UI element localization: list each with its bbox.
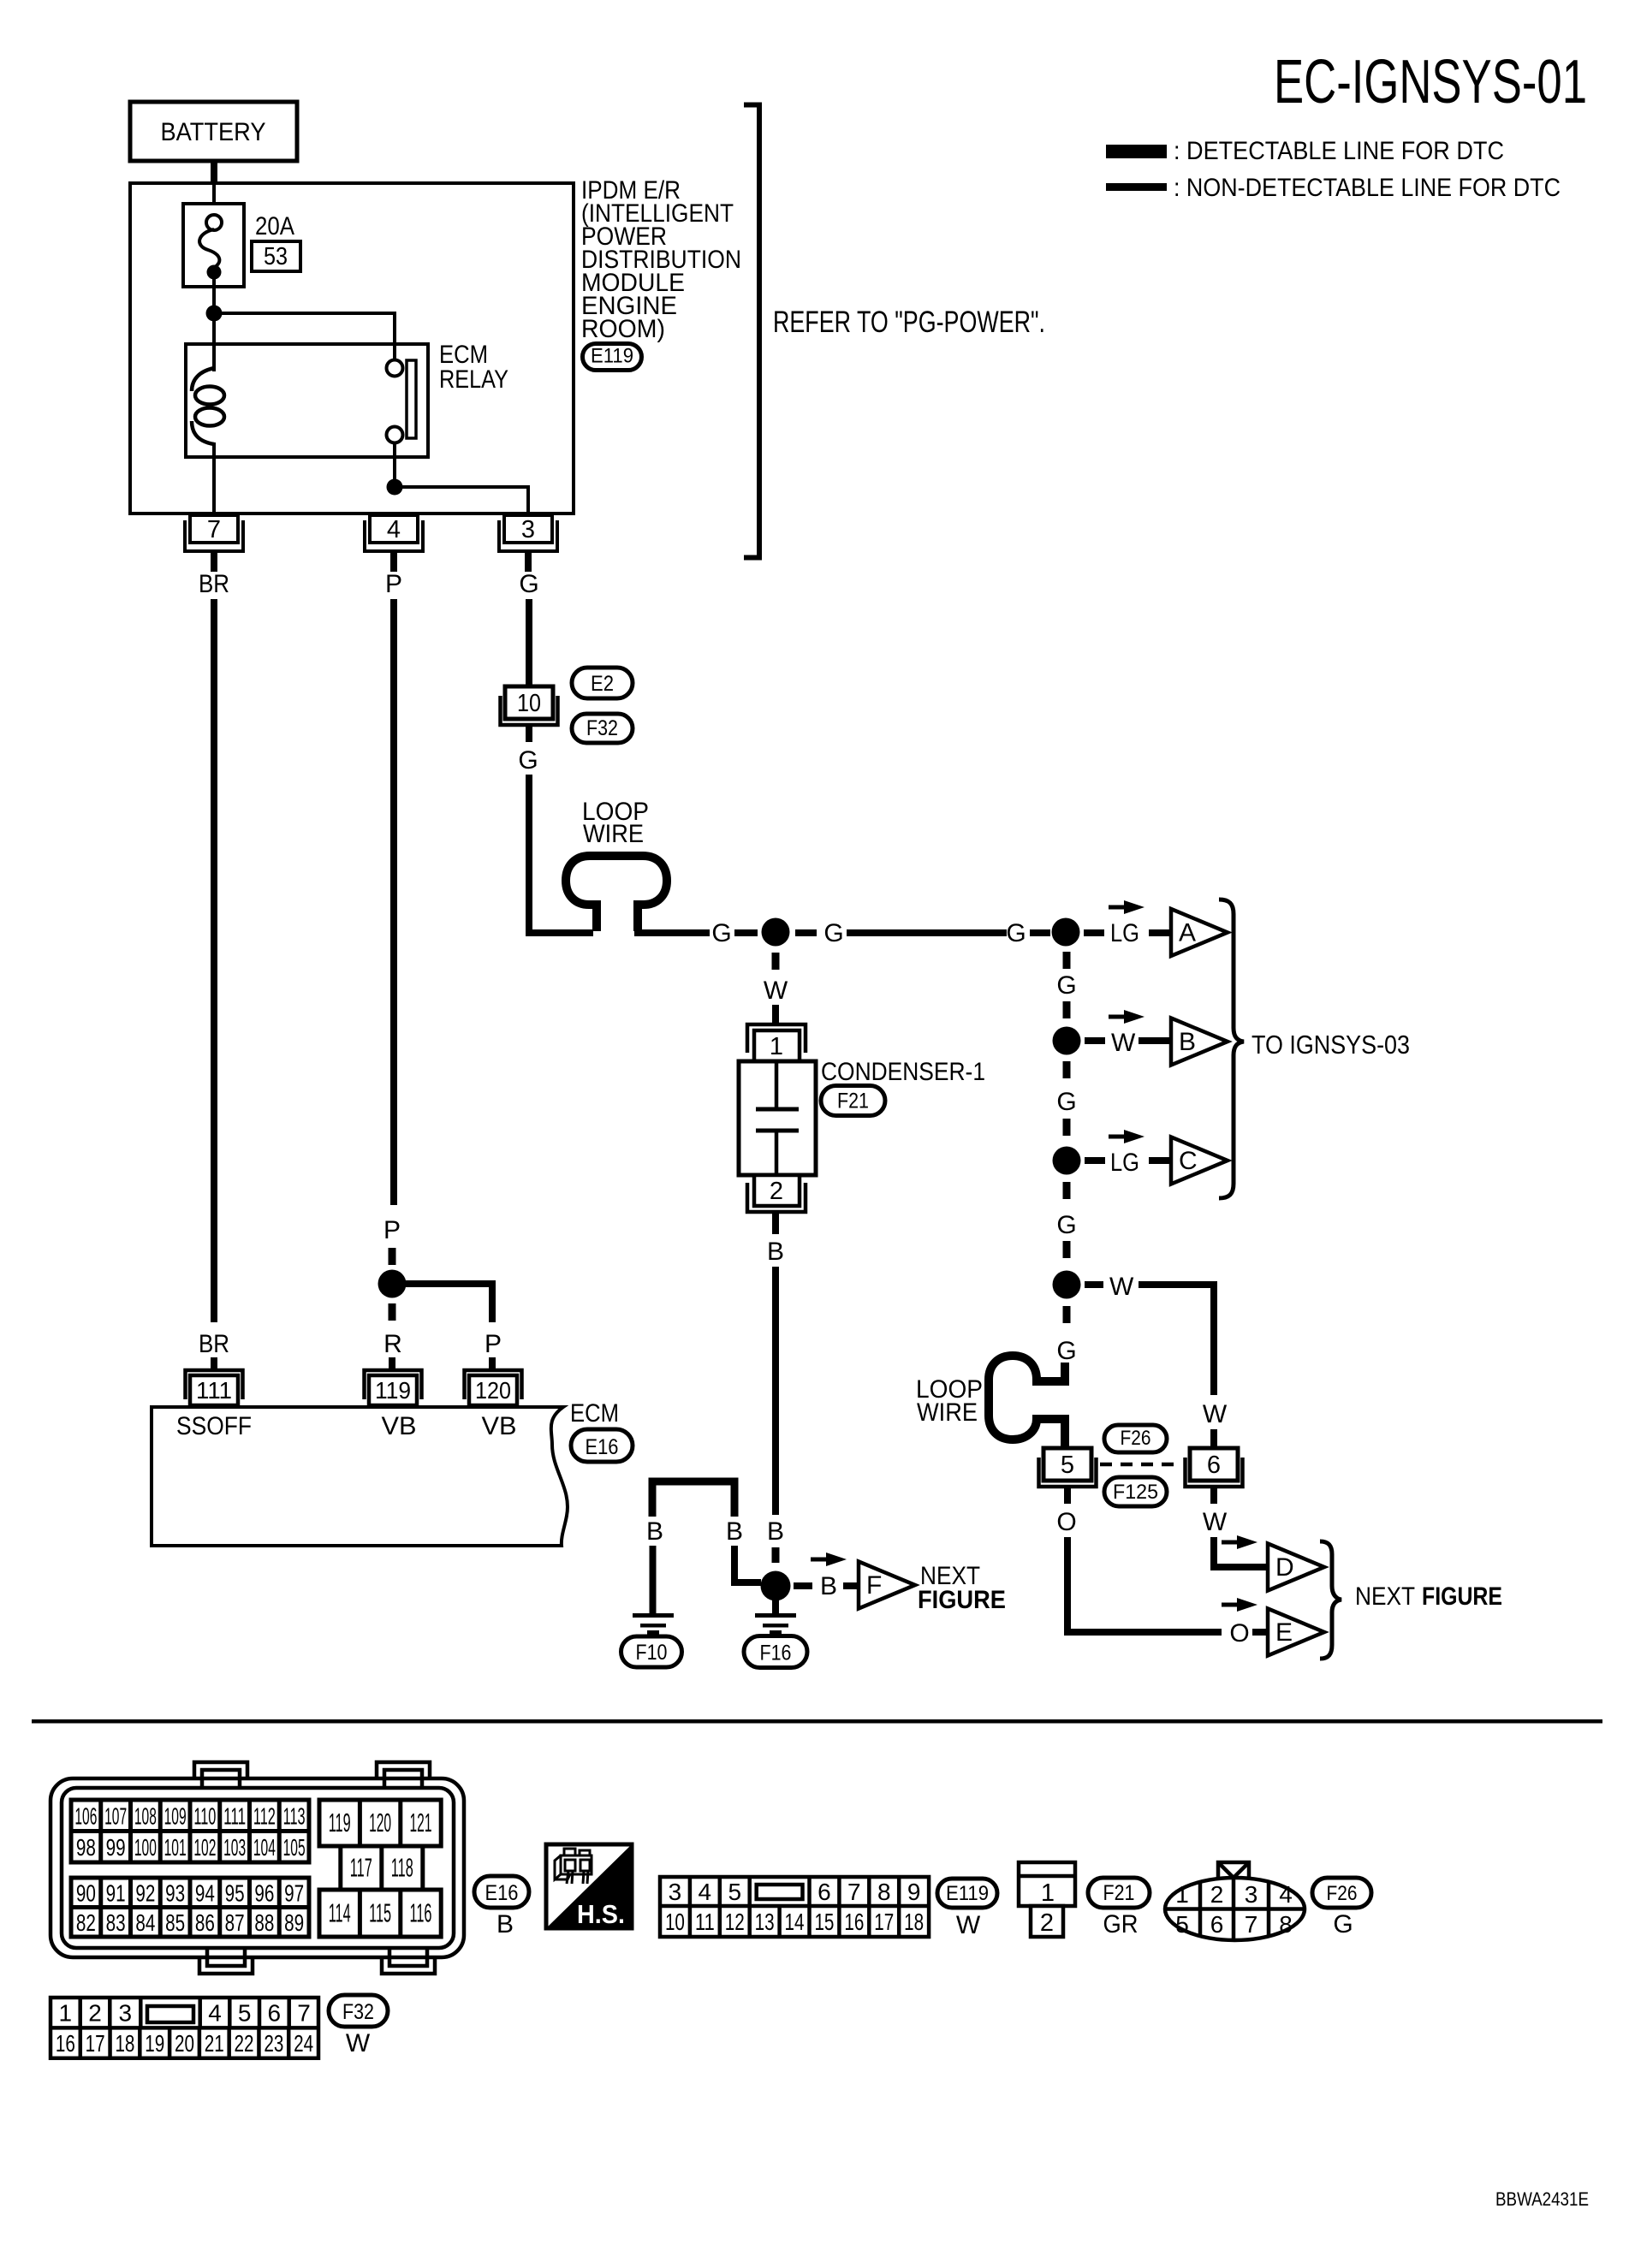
wire junction to VB 120 branch	[392, 1284, 492, 1322]
junction dot below relay	[387, 479, 403, 496]
svg-text:: NON-DETECTABLE LINE FOR DTC: : NON-DETECTABLE LINE FOR DTC	[1174, 174, 1561, 202]
wire stub below connector 10	[526, 727, 532, 742]
IPDM terminal 7	[185, 515, 243, 572]
wire dash right of dot 4	[1085, 1157, 1105, 1164]
svg-text:118: 118	[391, 1853, 413, 1883]
svg-text:19: 19	[145, 2030, 164, 2057]
svg-text:R: R	[383, 1330, 402, 1358]
wire solid to triangle A	[1149, 929, 1173, 936]
svg-text:92: 92	[135, 1879, 155, 1906]
svg-text:113: 113	[283, 1802, 306, 1829]
wire stub to E	[1252, 1629, 1268, 1636]
connector 6 F26/F125	[1186, 1448, 1243, 1487]
wire solid to triangle B	[1139, 1037, 1173, 1044]
wire R stub to terminal 119	[389, 1357, 395, 1372]
svg-text:100: 100	[134, 1834, 157, 1861]
svg-text:16: 16	[56, 2030, 75, 2057]
H.S. super multiple junction symbol	[546, 1844, 632, 1929]
svg-text:16: 16	[844, 1909, 864, 1935]
svg-text:W: W	[1109, 1273, 1134, 1301]
connector oval E119 module	[583, 344, 642, 371]
relay armature bar	[407, 360, 416, 438]
wire coil to terminal 7	[212, 442, 216, 517]
triangle D	[1268, 1544, 1324, 1591]
connector oval E2	[572, 668, 633, 698]
svg-text:18: 18	[115, 2030, 134, 2057]
separator line	[32, 1719, 1602, 1724]
connector oval F32	[572, 714, 633, 743]
wire B leg1 to ground F10	[650, 1546, 657, 1614]
svg-text:86: 86	[195, 1909, 215, 1936]
svg-text:2: 2	[88, 2000, 102, 2027]
svg-text:W: W	[346, 2029, 371, 2057]
svg-text:5: 5	[1175, 1911, 1189, 1938]
svg-text:99: 99	[106, 1834, 126, 1861]
junction dot 5	[1053, 1271, 1081, 1299]
svg-text:5: 5	[1061, 1452, 1074, 1479]
bracket refer to PG-POWER	[744, 105, 759, 558]
wire junction to relay coil	[212, 313, 216, 371]
svg-text:7: 7	[847, 1879, 861, 1905]
svg-text:119: 119	[375, 1377, 411, 1404]
wire dash B to dot	[772, 1547, 780, 1563]
arrow to F	[811, 1553, 847, 1566]
E16 pin grid right middle row	[341, 1846, 423, 1890]
legend non-detectable line bar	[1106, 183, 1167, 191]
connector oval F26 link	[1104, 1425, 1167, 1452]
svg-text:BATTERY: BATTERY	[161, 118, 266, 146]
connector 5 F26/F125	[1039, 1448, 1097, 1487]
svg-text:G: G	[1333, 1910, 1353, 1938]
svg-text:F26: F26	[1121, 1427, 1151, 1450]
svg-text:6: 6	[817, 1879, 831, 1905]
wire dash dot1 to W label	[772, 953, 780, 970]
svg-text:BBWA2431E: BBWA2431E	[1495, 2188, 1589, 2210]
svg-text:9: 9	[907, 1879, 921, 1905]
brace to IGNSYS-03	[1219, 899, 1244, 1198]
connector oval F16	[744, 1636, 807, 1668]
svg-text:EC-IGNSYS-01: EC-IGNSYS-01	[1274, 48, 1587, 116]
svg-text:109: 109	[164, 1802, 187, 1829]
svg-text:10: 10	[517, 690, 541, 717]
svg-text:SSOFF: SSOFF	[176, 1412, 252, 1440]
connector oval E16 view	[474, 1876, 529, 1908]
svg-text:F10: F10	[636, 1641, 668, 1665]
svg-text:F: F	[866, 1571, 882, 1600]
svg-text:CONDENSER-1: CONDENSER-1	[821, 1058, 985, 1086]
svg-text:6: 6	[268, 2000, 282, 2027]
wire stub to connector 6	[1210, 1429, 1217, 1451]
svg-text:O: O	[1056, 1508, 1076, 1536]
svg-text:97: 97	[284, 1879, 304, 1906]
wire dash above dot 5	[1063, 1241, 1071, 1258]
IPDM E/R box	[130, 183, 574, 514]
wire solid to triangle F	[843, 1582, 859, 1589]
svg-text:2: 2	[1210, 1881, 1224, 1908]
triangle C	[1171, 1137, 1228, 1184]
connector oval F26 view	[1312, 1878, 1371, 1908]
svg-text:14: 14	[785, 1909, 805, 1935]
svg-text:LG: LG	[1110, 919, 1139, 947]
svg-text:VB: VB	[482, 1412, 517, 1440]
wire stub below connector 5	[1064, 1487, 1071, 1504]
wire stub below connector 6	[1210, 1487, 1217, 1504]
ground symbol F16	[755, 1613, 796, 1635]
wire fuse to junction	[212, 279, 216, 313]
svg-text:12: 12	[725, 1909, 745, 1935]
svg-text:E119: E119	[591, 345, 633, 368]
svg-text:82: 82	[76, 1909, 96, 1936]
svg-text:111: 111	[196, 1377, 232, 1404]
svg-text:20: 20	[175, 2030, 194, 2057]
svg-text:120: 120	[369, 1808, 391, 1838]
svg-text:E2: E2	[591, 672, 614, 696]
svg-text:17: 17	[874, 1909, 894, 1935]
svg-text:120: 120	[475, 1377, 511, 1404]
wire dash right of dot 5	[1085, 1281, 1103, 1288]
svg-text:1: 1	[59, 2000, 73, 2027]
svg-text:3: 3	[669, 1879, 682, 1905]
svg-text:87: 87	[225, 1909, 245, 1936]
IPDM terminal 3	[499, 515, 557, 572]
battery	[130, 102, 297, 161]
svg-text:95: 95	[225, 1879, 245, 1906]
svg-text:83: 83	[106, 1909, 126, 1936]
IPDM E/R label	[581, 176, 741, 343]
svg-text:88: 88	[254, 1909, 274, 1936]
svg-text:1: 1	[1041, 1879, 1055, 1907]
svg-text:10: 10	[665, 1909, 685, 1935]
svg-text:53: 53	[264, 243, 288, 270]
svg-text:121: 121	[410, 1808, 432, 1838]
svg-text:4: 4	[208, 2000, 222, 2027]
svg-text:116: 116	[410, 1898, 432, 1928]
connector view F21	[1019, 1862, 1075, 1937]
wire into fuse	[212, 183, 216, 205]
svg-text:F26: F26	[1327, 1882, 1358, 1905]
svg-text:G: G	[1056, 1211, 1076, 1239]
wire junction to terminal 3	[395, 487, 528, 517]
NEXT FIGURE text left	[918, 1562, 1006, 1614]
triangle B	[1171, 1018, 1228, 1066]
svg-text:119: 119	[329, 1808, 351, 1838]
ECM relay box	[186, 344, 428, 457]
svg-text:105: 105	[283, 1834, 306, 1861]
junction dot G/W	[762, 918, 790, 947]
ECM box E16	[152, 1407, 568, 1546]
condenser-1 body	[739, 1061, 816, 1175]
svg-text:21: 21	[205, 2030, 224, 2057]
connector oval F32 view	[329, 1995, 388, 2027]
svg-text:F16: F16	[760, 1642, 792, 1665]
svg-text:20A: 20A	[255, 212, 294, 240]
wire battery to IPDM	[211, 161, 217, 183]
connector view E119 grid	[660, 1877, 929, 1937]
connector oval F10	[621, 1636, 682, 1667]
junction dot after fuse	[206, 306, 223, 322]
wire dash right of dot 2	[1084, 929, 1104, 936]
svg-text:ECM: ECM	[570, 1399, 619, 1428]
svg-text:O: O	[1229, 1619, 1249, 1648]
ground symbol F10	[633, 1613, 674, 1635]
arrow to C	[1109, 1130, 1144, 1143]
wire loop to G label	[634, 929, 710, 936]
triangle F	[859, 1562, 915, 1609]
svg-text:24: 24	[294, 2030, 313, 2057]
svg-text:B: B	[1179, 1028, 1196, 1056]
svg-text:5: 5	[238, 2000, 252, 2027]
wire dash to dot 2	[1030, 929, 1050, 936]
svg-text:13: 13	[755, 1909, 775, 1935]
wire W to triangle D	[1214, 1537, 1266, 1567]
relay coil	[192, 368, 224, 444]
svg-text:B: B	[767, 1238, 784, 1266]
svg-text:89: 89	[284, 1909, 304, 1936]
svg-text:BR: BR	[199, 1330, 229, 1358]
ECM terminal 119	[365, 1370, 422, 1405]
svg-text:22: 22	[235, 2030, 254, 2057]
connector oval F21 view	[1088, 1878, 1150, 1908]
svg-text:FIGURE: FIGURE	[1422, 1582, 1502, 1611]
svg-text:4: 4	[387, 516, 401, 543]
junction dot 3	[1053, 1027, 1081, 1055]
svg-text:H.S.: H.S.	[577, 1899, 625, 1929]
wire stub below condenser	[772, 1214, 779, 1234]
svg-text:W: W	[764, 977, 788, 1005]
svg-text:23: 23	[264, 2030, 283, 2057]
wire to ground F16	[772, 1600, 779, 1614]
wire dash left of dot 1	[734, 929, 758, 936]
connector view F32 grid	[51, 1998, 318, 2058]
connector oval F21 module	[821, 1086, 885, 1116]
svg-text:4: 4	[1279, 1881, 1293, 1908]
svg-text:ROOM): ROOM)	[581, 315, 665, 343]
svg-text:107: 107	[104, 1802, 127, 1829]
svg-text:NEXT: NEXT	[1355, 1582, 1415, 1611]
svg-text:B: B	[646, 1517, 663, 1546]
svg-text:11: 11	[695, 1909, 715, 1935]
svg-text:2: 2	[770, 1178, 783, 1205]
svg-text:6: 6	[1210, 1911, 1224, 1938]
condenser terminal 2	[747, 1175, 806, 1212]
svg-text:E119: E119	[946, 1882, 989, 1905]
svg-text:VB: VB	[382, 1412, 417, 1440]
svg-text:WIRE: WIRE	[917, 1398, 978, 1427]
dashed link between connectors 5 and 6	[1100, 1463, 1181, 1467]
svg-text:F21: F21	[837, 1089, 869, 1113]
arrow to D	[1222, 1535, 1257, 1549]
svg-text:108: 108	[134, 1802, 157, 1829]
arrow to B	[1109, 1010, 1144, 1024]
condenser terminal 1	[747, 1024, 806, 1061]
svg-text:84: 84	[135, 1909, 155, 1936]
svg-text:18: 18	[904, 1909, 924, 1935]
svg-text:E: E	[1275, 1618, 1293, 1647]
svg-text:5: 5	[728, 1879, 741, 1905]
svg-text:3: 3	[1245, 1881, 1258, 1908]
wire O to triangle E	[1067, 1537, 1222, 1632]
connector oval E119 view	[937, 1879, 997, 1908]
svg-text:7: 7	[207, 516, 221, 543]
svg-text:8: 8	[1279, 1911, 1293, 1938]
svg-text:1: 1	[770, 1033, 783, 1060]
svg-text:3: 3	[521, 516, 535, 543]
wire G vertical to connector 10	[526, 599, 532, 688]
B ground bridge bar	[652, 1481, 734, 1517]
junction dot 2	[1052, 918, 1080, 947]
wire solid G run	[847, 929, 1007, 936]
svg-text:G: G	[1006, 919, 1026, 947]
E16 pin grid right top row	[319, 1800, 441, 1846]
wire dash right of dot 1	[795, 929, 817, 936]
wire dash below dot 2	[1063, 952, 1071, 969]
svg-text:G: G	[519, 570, 538, 598]
svg-text:GR: GR	[1103, 1910, 1139, 1938]
svg-text:112: 112	[253, 1802, 276, 1829]
svg-text:B: B	[820, 1572, 837, 1600]
svg-text:C: C	[1179, 1147, 1198, 1175]
svg-text:7: 7	[1245, 1911, 1258, 1938]
wire W to connector 6	[1139, 1285, 1214, 1395]
svg-text:B: B	[726, 1517, 743, 1546]
connector oval E16 module	[571, 1429, 633, 1462]
relay contact bottom	[387, 427, 403, 443]
wire junction to relay contact	[214, 313, 395, 360]
svg-text:2: 2	[1040, 1909, 1054, 1937]
svg-text:91: 91	[106, 1879, 126, 1906]
svg-text:D: D	[1275, 1553, 1294, 1582]
wire dash below dot 3	[1063, 1061, 1071, 1078]
wire P vertical	[390, 599, 397, 1205]
svg-text:W: W	[1203, 1400, 1228, 1428]
svg-text:G: G	[1056, 971, 1076, 1000]
svg-text:104: 104	[253, 1834, 276, 1861]
svg-text:17: 17	[86, 2030, 105, 2057]
triangle E	[1268, 1609, 1324, 1656]
svg-text:P: P	[383, 1216, 401, 1244]
wire contact to junction below relay	[393, 443, 396, 487]
svg-text:98: 98	[76, 1834, 96, 1861]
svg-text:P: P	[485, 1330, 502, 1358]
ECM terminal 120	[465, 1370, 522, 1405]
wire P stub to terminal 120	[489, 1357, 496, 1372]
svg-text:111: 111	[223, 1802, 246, 1829]
svg-text:F32: F32	[342, 2000, 374, 2024]
E16 pin grid lower-left	[71, 1878, 309, 1937]
svg-text:B: B	[496, 1910, 514, 1938]
wire BR vertical	[211, 599, 217, 1322]
svg-text:8: 8	[877, 1879, 891, 1905]
svg-text:REFER TO "PG-POWER".: REFER TO "PG-POWER".	[773, 306, 1045, 339]
svg-text:G: G	[1056, 1088, 1076, 1116]
svg-text:B: B	[767, 1517, 784, 1546]
svg-text:F32: F32	[586, 716, 618, 740]
E16 pin grid upper-left	[71, 1800, 309, 1862]
junction dot B	[761, 1571, 791, 1601]
svg-text:114: 114	[329, 1898, 351, 1928]
wire P dash to junction	[389, 1248, 396, 1265]
svg-text:RELAY: RELAY	[439, 365, 508, 394]
wire dash below dot 5	[1063, 1306, 1071, 1323]
triangle A	[1171, 909, 1228, 956]
svg-text:LG: LG	[1110, 1149, 1139, 1177]
wire B leg2 to dot	[734, 1546, 761, 1582]
svg-text:1: 1	[1175, 1881, 1189, 1908]
svg-text:101: 101	[164, 1834, 187, 1861]
loop wire symbol	[566, 856, 667, 931]
svg-text:3: 3	[119, 2000, 133, 2027]
NEXT FIGURE text right	[1355, 1582, 1502, 1611]
IPDM terminal 4	[365, 515, 423, 572]
ECM terminal 111	[186, 1370, 243, 1405]
wire solid to triangle C	[1149, 1157, 1173, 1164]
svg-text:W: W	[956, 1911, 981, 1939]
fuse 20A 53	[183, 204, 244, 287]
svg-text:A: A	[1179, 919, 1196, 947]
fuse number 53 box	[252, 241, 300, 271]
svg-text:G: G	[711, 919, 731, 947]
svg-text:G: G	[518, 746, 538, 775]
arrow to A	[1109, 900, 1144, 914]
wire R dash below junction	[389, 1303, 396, 1321]
wire G down and right	[529, 775, 593, 933]
wire dash above dot 4	[1063, 1119, 1071, 1136]
svg-text:E16: E16	[586, 1435, 619, 1459]
svg-text:P: P	[385, 570, 402, 598]
svg-text:W: W	[1203, 1508, 1228, 1536]
svg-text:90: 90	[76, 1879, 96, 1906]
svg-text:115: 115	[369, 1898, 391, 1928]
svg-text:F125: F125	[1113, 1481, 1158, 1504]
svg-text:G: G	[1056, 1337, 1076, 1365]
svg-text:102: 102	[193, 1834, 216, 1861]
arrow to E	[1222, 1598, 1257, 1612]
connector oval F125 link	[1104, 1477, 1167, 1506]
wire stub into condenser	[772, 1005, 779, 1024]
svg-text:FIGURE: FIGURE	[918, 1586, 1006, 1614]
wire BR stub to terminal 111	[211, 1357, 217, 1372]
connector view F26 oval 8-pin	[1165, 1862, 1305, 1940]
svg-text:E16: E16	[485, 1881, 519, 1905]
svg-text:TO IGNSYS-03: TO IGNSYS-03	[1252, 1030, 1410, 1060]
junction dot 4	[1053, 1147, 1081, 1175]
svg-text:G: G	[823, 919, 843, 947]
svg-text:85: 85	[165, 1909, 185, 1936]
svg-text:4: 4	[699, 1879, 712, 1905]
svg-text:96: 96	[254, 1879, 274, 1906]
wire B vertical	[772, 1267, 779, 1515]
svg-text:117: 117	[350, 1853, 372, 1883]
wire dash right of dot 3	[1085, 1037, 1105, 1044]
svg-text:106: 106	[74, 1802, 97, 1829]
svg-text:: DETECTABLE LINE FOR DTC: : DETECTABLE LINE FOR DTC	[1174, 137, 1504, 165]
svg-text:F21: F21	[1103, 1881, 1135, 1905]
svg-text:15: 15	[814, 1909, 834, 1935]
loop wire 2 symbol	[989, 1356, 1065, 1448]
svg-text:7: 7	[297, 2000, 311, 2027]
connector 10 E2/F32	[501, 686, 558, 725]
E16 pin grid right bottom row	[319, 1890, 441, 1937]
svg-text:6: 6	[1207, 1452, 1221, 1479]
wire dash below dot 4	[1063, 1182, 1071, 1199]
connector view E16 shell	[51, 1762, 464, 1974]
legend detectable line bar	[1106, 145, 1167, 158]
svg-text:103: 103	[223, 1834, 246, 1861]
svg-text:94: 94	[195, 1879, 215, 1906]
svg-text:WIRE: WIRE	[583, 820, 644, 848]
svg-text:93: 93	[165, 1879, 185, 1906]
relay contact top	[387, 360, 403, 377]
